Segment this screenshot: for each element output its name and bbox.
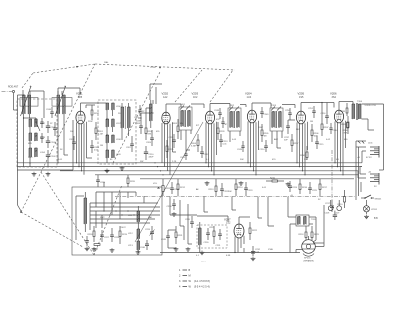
earphone jack J201 xyxy=(356,141,373,145)
battery A 9V xyxy=(368,170,379,187)
capacitor C222 xyxy=(220,183,229,197)
svg-text:47K: 47K xyxy=(216,119,220,121)
tube V206 3S4 power output xyxy=(334,110,343,123)
svg-text:C231: C231 xyxy=(216,245,222,247)
label V207 xyxy=(224,218,231,225)
capacitor C245 left of V207 box xyxy=(161,230,170,242)
capacitor C251 xyxy=(308,106,316,118)
trimmer capacitor C240 xyxy=(140,240,149,250)
wire join to speaker bus xyxy=(243,248,245,253)
resistor R231 xyxy=(175,226,183,244)
capacitor C229 xyxy=(96,175,106,187)
wire T205 connections xyxy=(288,197,316,253)
svg-text:MW: MW xyxy=(28,143,32,145)
wire osc block internals xyxy=(98,103,113,163)
capacitor C221 xyxy=(170,182,180,194)
label voice coil xyxy=(365,105,377,107)
svg-text:1M: 1M xyxy=(264,136,267,138)
resistor R214 xyxy=(235,179,243,196)
svg-text:C235: C235 xyxy=(185,219,191,221)
svg-text:R227: R227 xyxy=(294,143,300,145)
svg-text:R225: R225 xyxy=(314,234,320,236)
svg-text:C214: C214 xyxy=(260,149,266,151)
svg-text:R219: R219 xyxy=(122,234,128,236)
svg-text:C249: C249 xyxy=(264,114,270,116)
dashed linkage diagonal to lower block xyxy=(20,211,83,247)
wire RF coil couplings xyxy=(57,91,68,163)
svg-text:C240: C240 xyxy=(140,247,146,249)
resistor R207 xyxy=(321,118,329,136)
diagonal dial cord line xyxy=(135,122,203,242)
trimmer capacitor C204 xyxy=(69,136,76,150)
svg-text:ROD ANT: ROD ANT xyxy=(8,85,19,88)
wire AVC return long vertical xyxy=(18,95,25,211)
tube V202 1A2 converter xyxy=(162,112,170,124)
svg-text:C203: C203 xyxy=(51,156,57,158)
svg-text:C224: C224 xyxy=(292,187,298,189)
ground band switch 2 xyxy=(110,248,115,252)
svg-text:C225: C225 xyxy=(312,190,318,192)
svg-text:C250: C250 xyxy=(285,110,291,112)
resistor R208 xyxy=(343,116,350,135)
svg-text:3.3M: 3.3M xyxy=(191,146,196,148)
capacitor C208 xyxy=(135,120,143,134)
capacitor C247 xyxy=(138,105,145,116)
label V201 xyxy=(76,92,83,99)
wire antenna to coil top xyxy=(22,90,24,95)
capacitor C213 xyxy=(219,134,228,147)
capacitor C225 xyxy=(308,182,318,194)
capacitor C244 xyxy=(329,123,338,134)
svg-text:CORD: CORD xyxy=(150,67,156,69)
svg-text:VOICE COIL: VOICE COIL xyxy=(365,105,377,107)
coil unit outer box bottom xyxy=(17,120,73,170)
svg-text:1R5: 1R5 xyxy=(78,96,83,99)
svg-text:47K: 47K xyxy=(148,134,152,136)
resistor R232 xyxy=(91,105,100,120)
svg-text:430P: 430P xyxy=(149,157,154,159)
wire coil block verticals xyxy=(23,117,48,167)
capacitor C211 at V202 xyxy=(169,134,176,148)
svg-text:(9 5 4 4 2 5 4): (9 5 4 4 2 5 4) xyxy=(194,286,210,289)
svg-text:T201: T201 xyxy=(180,104,186,106)
svg-text:C248: C248 xyxy=(214,110,220,112)
legend note line 1 xyxy=(179,269,191,272)
legend note line 2 xyxy=(179,275,191,278)
jack circle J202 xyxy=(325,200,334,215)
label V203 xyxy=(192,92,199,99)
wire V202 pins xyxy=(162,122,176,175)
resistor R212 xyxy=(177,179,186,196)
wire V204 plate to T203 xyxy=(252,103,271,110)
tube V205 1S5 detector AF amplifier xyxy=(296,111,305,124)
wire B+ bus xyxy=(17,162,362,164)
svg-text:C242: C242 xyxy=(180,157,186,159)
ground coil block xyxy=(46,172,51,176)
switch contacts band selector xyxy=(35,118,40,152)
svg-text:T202: T202 xyxy=(229,105,235,107)
ground osc block xyxy=(105,169,110,173)
trimmer capacitor C226 xyxy=(145,226,155,240)
capacitor C224 xyxy=(288,181,298,192)
resistor R228 xyxy=(217,122,225,140)
wire V207 feed stubs xyxy=(168,230,176,248)
ground band switch 3 xyxy=(136,250,141,254)
antenna ROD ANT terminal xyxy=(2,85,19,92)
resistor R217 xyxy=(319,179,328,196)
wire V206 plate to output transformer xyxy=(339,102,353,111)
label V206 xyxy=(330,92,337,99)
svg-text:1S5: 1S5 xyxy=(299,96,304,99)
resistor R204 xyxy=(191,134,199,152)
wire V205 pins xyxy=(297,122,308,175)
label SP201 xyxy=(304,258,315,263)
wire lower riser 2 xyxy=(180,200,184,240)
dashed diagonal in band-switch block xyxy=(94,185,122,255)
wire osc grid stair xyxy=(150,84,162,104)
dashed linkage diagonal oscillator gang xyxy=(113,72,160,163)
wire V201 pins to buses xyxy=(77,122,93,175)
capacitor C202 xyxy=(46,136,57,148)
band coil L211 xyxy=(128,206,140,229)
svg-text:SP201: SP201 xyxy=(304,258,311,260)
ground mid xyxy=(186,247,191,251)
wire V203 pins xyxy=(206,122,217,175)
resistor R227 xyxy=(291,134,299,152)
svg-text:C204: C204 xyxy=(69,139,75,141)
svg-text:R207: R207 xyxy=(324,127,330,129)
svg-text:SW201: SW201 xyxy=(375,199,383,201)
capacitor C235 xyxy=(185,216,194,228)
ground riser xyxy=(172,212,177,216)
svg-text:1S2: 1S2 xyxy=(226,222,231,225)
svg-text:100P: 100P xyxy=(258,127,263,129)
svg-text:OSC2: OSC2 xyxy=(120,227,127,229)
svg-text:C216: C216 xyxy=(321,113,327,115)
resistor R229 xyxy=(166,140,174,158)
svg-text:M: M xyxy=(189,275,191,278)
svg-text:R229: R229 xyxy=(169,149,175,151)
wire speaker connections xyxy=(309,205,325,247)
svg-text:67.5V: 67.5V xyxy=(366,157,372,159)
resistor R205 xyxy=(261,124,269,142)
wire V205 coupling network xyxy=(301,102,334,118)
resistor R206 xyxy=(311,124,319,142)
svg-text:R230: R230 xyxy=(300,155,306,157)
capacitor C250 xyxy=(285,108,292,120)
wire antenna lead down xyxy=(14,93,18,110)
resistor R225 xyxy=(311,226,320,240)
svg-text:C215: C215 xyxy=(319,144,325,146)
wire output to right edge xyxy=(362,104,384,139)
capacitor C203 xyxy=(46,150,57,161)
svg-text:1K2: 1K2 xyxy=(193,96,198,99)
resistor R209 xyxy=(341,123,349,129)
oscillator coil L209 xyxy=(106,150,121,158)
capacitor C241 xyxy=(221,117,227,128)
svg-text:R218: R218 xyxy=(88,234,94,236)
svg-text:R221: R221 xyxy=(210,227,216,229)
resistor R224 xyxy=(299,226,308,240)
tube V204 1U4 IF amplifier xyxy=(247,110,256,123)
svg-text:1M: 1M xyxy=(310,121,313,123)
svg-text:1M: 1M xyxy=(100,145,103,147)
legend note line 4 xyxy=(179,286,210,289)
resistor R226 xyxy=(93,244,100,251)
capacitor C207 padder xyxy=(126,136,134,152)
svg-text:C251: C251 xyxy=(308,108,314,110)
wire grid stopper V205 xyxy=(288,119,295,121)
capacitor C248 xyxy=(214,108,222,119)
svg-text:R228: R228 xyxy=(220,131,226,133)
svg-text:50P: 50P xyxy=(284,140,288,142)
svg-text:- - - -: - - - - xyxy=(201,261,206,263)
capacitor C234 xyxy=(167,199,176,210)
resistor R233 xyxy=(340,103,348,116)
coil L214 in V207 unit xyxy=(199,222,202,248)
capacitor C223 xyxy=(244,182,253,196)
wire T202 secondary leads xyxy=(230,105,246,143)
svg-text:2.2K: 2.2K xyxy=(172,161,177,163)
svg-text:C246: C246 xyxy=(46,109,52,111)
capacitor C215 xyxy=(315,136,324,149)
svg-text:(SPEAKER): (SPEAKER) xyxy=(304,259,315,262)
svg-text:C227: C227 xyxy=(104,237,110,239)
resistor R219 xyxy=(119,226,128,244)
svg-text:C212: C212 xyxy=(204,154,210,156)
shield box band switch unit xyxy=(72,187,162,255)
svg-text:C228: C228 xyxy=(114,237,120,239)
IF transformer T203 xyxy=(270,107,283,132)
switch SW201 xyxy=(361,195,382,201)
svg-text:R220: R220 xyxy=(130,181,136,183)
jack circle J203 xyxy=(335,200,342,215)
resistor R201 xyxy=(95,122,104,140)
wire mid risers below shield line xyxy=(204,197,274,227)
svg-text:470K: 470K xyxy=(343,133,348,135)
wire battery feeds xyxy=(356,141,366,200)
svg-text:25K: 25K xyxy=(304,159,308,161)
wire right edge drop xyxy=(379,139,384,170)
wire grid line V202 xyxy=(138,108,154,120)
value labels sprinkle xyxy=(28,113,348,257)
IF transformer T201 xyxy=(179,106,192,131)
padder capacitor C210 xyxy=(144,146,155,160)
svg-text:C234: C234 xyxy=(167,206,173,208)
resistor R213 xyxy=(209,179,218,197)
ground band switch 1 xyxy=(92,247,97,251)
label dial xyxy=(104,61,156,69)
capacitor C230 xyxy=(204,228,210,244)
svg-text:R224: R224 xyxy=(299,234,305,236)
capacitor C209 xyxy=(146,130,154,146)
label BB xyxy=(374,218,378,220)
dashed linkage diagonal left vertex xyxy=(21,64,95,212)
oscillator coil L207 xyxy=(106,119,121,127)
svg-text:C243: C243 xyxy=(237,149,243,151)
svg-text:10K: 10K xyxy=(228,191,232,193)
dashed linkage from coil box to band block xyxy=(41,172,94,255)
capacitor C206 at V201 xyxy=(90,140,100,153)
svg-text:XTAL: XTAL xyxy=(268,248,274,251)
capacitor C236 xyxy=(85,236,89,246)
battery B 67.5V xyxy=(357,146,379,159)
junction dots on buses xyxy=(76,162,344,175)
shield box oscillator coil unit xyxy=(98,100,136,164)
svg-text:R231: R231 xyxy=(178,235,184,237)
chassis shield dash-dot boundary xyxy=(115,196,356,198)
svg-text:LP201: LP201 xyxy=(371,209,378,211)
label V205 xyxy=(298,92,305,99)
capacitor C220 xyxy=(333,211,337,220)
capacitor C243 xyxy=(237,141,245,152)
svg-text:R212: R212 xyxy=(180,187,186,189)
svg-text:C223: C223 xyxy=(248,190,254,192)
svg-text:2.2M: 2.2M xyxy=(98,134,103,136)
wire antenna coil grid tap xyxy=(30,91,44,118)
capacitor C237 xyxy=(284,120,290,142)
capacitor C231 xyxy=(216,229,222,247)
tube V207 1S2 oscillator xyxy=(234,224,244,238)
svg-text:C208: C208 xyxy=(135,123,141,125)
oscillator coupling coil L215 xyxy=(150,100,154,128)
svg-text:C229: C229 xyxy=(100,182,106,184)
svg-text:6.8K: 6.8K xyxy=(226,255,231,257)
shield box antenna coil unit xyxy=(17,99,57,167)
loudspeaker SP201 xyxy=(302,240,316,256)
tube V203 1K2 IF amplifier xyxy=(205,111,214,124)
resistor R221 xyxy=(210,226,216,244)
band coil L202 xyxy=(29,119,46,127)
capacitor C239 xyxy=(40,133,43,143)
svg-text:(A 1 4 5 8 8 8): (A 1 4 5 8 8 8) xyxy=(194,280,210,283)
shield box V207 unit xyxy=(197,225,227,248)
svg-text:R222: R222 xyxy=(252,230,258,232)
svg-text:50K: 50K xyxy=(240,159,244,161)
svg-text:R214: R214 xyxy=(238,187,244,189)
oscillator coil L206 xyxy=(106,103,121,110)
label T201 xyxy=(180,104,186,106)
antenna coil L201 with trimmer xyxy=(21,86,32,118)
svg-text:C226: C226 xyxy=(145,229,151,231)
IF transformer T202 xyxy=(228,107,241,132)
dash-dot block boundary right xyxy=(331,150,333,200)
resistor R202 xyxy=(145,120,153,140)
svg-text:R215: R215 xyxy=(270,178,276,180)
svg-text:220P: 220P xyxy=(88,121,93,123)
svg-text:PAD: PAD xyxy=(148,216,153,219)
wire T201 secondary leads xyxy=(181,104,204,150)
tube V201 1R5 RF amplifier xyxy=(76,111,85,124)
resistor R216 xyxy=(299,179,308,194)
capacitor C214 xyxy=(260,140,268,152)
svg-text:OSC: OSC xyxy=(134,117,139,119)
oscillator coil L208 xyxy=(106,135,121,143)
svg-text:C202: C202 xyxy=(51,142,57,144)
svg-text:L204: L204 xyxy=(40,152,46,154)
capacitor C216 xyxy=(321,110,329,124)
label V202 xyxy=(162,92,169,99)
wire band switch bus lines xyxy=(90,203,160,230)
capacitor C228 xyxy=(110,228,120,242)
label T202 xyxy=(229,105,235,107)
ground below bus 1 xyxy=(205,181,210,185)
capacitor C232 xyxy=(251,246,261,256)
wire lower riser 3 xyxy=(188,204,192,244)
ground antenna coil xyxy=(32,172,37,176)
resistor R215 decoupling xyxy=(266,178,284,183)
trimmer can box RF coil xyxy=(52,98,72,107)
band coil L213 xyxy=(128,241,140,253)
wire V202 plate to T201 xyxy=(166,104,181,112)
resistor R220 xyxy=(127,175,136,187)
potentiometer R211 volume xyxy=(153,179,171,196)
capacitor C242 xyxy=(180,150,188,160)
svg-text:10K: 10K xyxy=(70,131,74,133)
legend note line 3 xyxy=(179,280,210,283)
resistor R203 xyxy=(172,119,184,139)
wire V203 plate to T202 xyxy=(210,104,230,112)
resistor R230 xyxy=(300,146,308,160)
ground lower left xyxy=(85,247,90,251)
wire T203 secondary leads xyxy=(272,105,295,149)
svg-text:C207: C207 xyxy=(126,147,132,149)
wire screen bus xyxy=(140,178,354,180)
capacitor C217 xyxy=(325,200,334,212)
svg-text:C230: C230 xyxy=(204,242,210,244)
svg-text:C245: C245 xyxy=(161,239,167,241)
band coil L212 xyxy=(128,229,140,241)
svg-text:R217: R217 xyxy=(322,187,328,189)
band coil L203 xyxy=(29,133,46,141)
svg-text:T204: T204 xyxy=(357,101,363,103)
svg-text:C217: C217 xyxy=(325,203,331,205)
svg-text:SW: SW xyxy=(140,161,143,163)
ground C232 xyxy=(251,257,256,261)
trimmer can box antenna coil xyxy=(20,98,38,107)
wire V204 pins xyxy=(248,121,259,175)
wire second speaker lead xyxy=(296,243,324,253)
svg-text:R233: R233 xyxy=(340,111,346,113)
ground below bus 2 xyxy=(239,181,244,185)
svg-text:R226: R226 xyxy=(93,249,99,251)
capacitor C201 xyxy=(46,121,57,133)
svg-text:R209: R209 xyxy=(341,124,347,126)
wire bias bus xyxy=(95,174,358,176)
svg-text:1A2: 1A2 xyxy=(163,96,168,99)
svg-text:100P: 100P xyxy=(136,120,141,122)
svg-text:C211: C211 xyxy=(169,137,175,139)
dashed linkage diagonal mixer gang xyxy=(175,70,202,102)
capacitor C212 xyxy=(200,146,209,158)
dashed tuning-gang linkage rail xyxy=(33,64,235,73)
resistor R210 xyxy=(338,190,346,208)
wire band block risers xyxy=(76,182,144,240)
wire V207 pins xyxy=(235,217,250,253)
svg-text:R203: R203 xyxy=(172,123,178,125)
ground V207 unit xyxy=(200,251,205,255)
capacitor C249 xyxy=(260,107,269,118)
svg-text:R216: R216 xyxy=(302,187,308,189)
driver transformer T205 xyxy=(296,215,317,226)
band coil L204 xyxy=(29,148,46,157)
oscillator transformer T200 xyxy=(121,103,130,140)
wire lower riser 1 xyxy=(170,197,228,223)
legend small title xyxy=(201,261,206,263)
svg-text:C244: C244 xyxy=(333,130,339,132)
resistor R218 xyxy=(88,226,96,242)
svg-text:R232: R232 xyxy=(94,113,100,115)
